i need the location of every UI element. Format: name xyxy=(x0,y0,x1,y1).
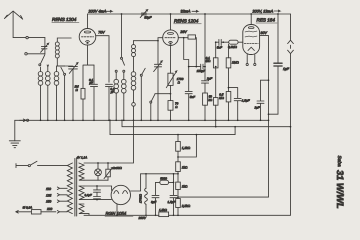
wire xyxy=(195,38,198,67)
svg-text:4V 1,1A: 4V 1,1A xyxy=(77,155,88,159)
svg-text:26V: 26V xyxy=(179,30,187,34)
wire 1uF column xyxy=(269,14,279,114)
transformer core xyxy=(75,159,77,217)
resistor 70 ohm xyxy=(170,85,172,120)
resistor R2 1k xyxy=(176,162,181,172)
capacitor 5nF (coupling) xyxy=(216,39,229,45)
jack contact xyxy=(132,103,136,107)
coil L2a xyxy=(38,72,43,77)
divider chain resistor R1 1,2k xyxy=(177,135,179,142)
field coil 1760 ohm xyxy=(145,174,147,189)
heater pins V3 xyxy=(247,55,255,64)
rectifier tube RGN 1054 xyxy=(111,185,130,204)
svg-text:1MΩ: 1MΩ xyxy=(232,61,239,65)
svg-text:200V, 12mA: 200V, 12mA xyxy=(252,9,274,13)
wire grid V2 xyxy=(134,38,163,41)
svg-text:30pF: 30pF xyxy=(144,16,152,20)
svg-text:1kΩ: 1kΩ xyxy=(182,184,188,188)
rectifier cathode to bottom wire xyxy=(116,204,118,215)
resistor 1M xyxy=(228,44,230,58)
svg-text:2x30Ω: 2x30Ω xyxy=(112,166,123,170)
svg-text:1µF: 1µF xyxy=(283,67,290,71)
svg-text:200V 4mA: 200V 4mA xyxy=(88,10,107,14)
wire switch S5 to cathode column xyxy=(151,94,170,102)
svg-text:1,5µF: 1,5µF xyxy=(168,200,176,204)
terminal A xyxy=(26,36,28,38)
capacitor 1,5uF right xyxy=(229,88,242,121)
resistor screen series xyxy=(188,35,196,39)
svg-text:32mA: 32mA xyxy=(181,10,191,14)
capacitor 5nF (grid leak) xyxy=(185,67,192,121)
coil L3a xyxy=(114,79,119,84)
svg-text:2µF: 2µF xyxy=(254,106,260,110)
svg-text:31 W/WL: 31 W/WL xyxy=(335,170,345,209)
capacitor 2uF xyxy=(202,14,209,93)
line A xyxy=(122,120,291,126)
antenna coil L1 xyxy=(55,42,59,46)
wire xyxy=(57,58,64,66)
svg-text:8µF: 8µF xyxy=(151,200,156,204)
secondary winding rectifier xyxy=(79,186,84,200)
svg-text:1,5µF: 1,5µF xyxy=(242,98,250,102)
coil L4 upper xyxy=(132,45,136,49)
resistor R4 2,5k xyxy=(176,199,181,208)
switch S4 xyxy=(140,76,142,120)
svg-text:RENS 1204: RENS 1204 xyxy=(52,17,77,22)
svg-text:MΩ: MΩ xyxy=(219,96,224,100)
SECTION: middle band xyxy=(15,13,270,127)
capacitor 1,5uF xyxy=(170,174,177,216)
wire 80V column xyxy=(178,36,269,198)
switch S1 xyxy=(39,64,41,66)
wire plate V3 xyxy=(250,14,252,25)
svg-text:1,5kΩ: 1,5kΩ xyxy=(159,208,168,212)
tube V3 RES 164 xyxy=(243,25,260,55)
svg-text:RES 164: RES 164 xyxy=(257,18,276,23)
resistor R3 1k xyxy=(176,182,181,189)
wire rectifier output xyxy=(131,174,141,191)
switch contact L2a xyxy=(40,67,42,72)
svg-text:RENS 1204: RENS 1204 xyxy=(174,18,199,23)
wire xyxy=(28,37,45,39)
resistor 0,1M column xyxy=(215,42,217,127)
capacitor 2uF (output cathode) xyxy=(257,80,269,120)
hum capacitors 0,1uF xyxy=(94,186,101,200)
wire xyxy=(27,53,45,55)
switch S2 xyxy=(64,75,66,120)
wire xyxy=(57,38,71,42)
ground xyxy=(14,120,16,141)
svg-text:5nF: 5nF xyxy=(190,95,195,99)
svg-text:Si 0,8A: Si 0,8A xyxy=(23,205,33,209)
svg-text:0,2MΩ: 0,2MΩ xyxy=(228,45,238,49)
fuse xyxy=(16,211,32,214)
capacitor 8uF xyxy=(152,182,159,215)
wire screen drop to grid-leak node xyxy=(184,38,189,67)
svg-text:70V: 70V xyxy=(98,30,105,34)
capacitor 0,1uF (screen) xyxy=(106,84,113,120)
capacitor 150pF (series) xyxy=(189,64,205,69)
top rail xyxy=(88,13,291,15)
HT wire xyxy=(141,173,178,175)
tube V2 RENS 1204 xyxy=(163,30,179,46)
resistor 1,5k bottom xyxy=(159,212,169,217)
svg-text:110: 110 xyxy=(46,187,51,191)
taps 110 125 150 220 xyxy=(60,188,68,212)
svg-text:125: 125 xyxy=(46,193,52,197)
coil L2b xyxy=(46,72,51,77)
capacitor 0,1uF (cathode) xyxy=(91,65,98,120)
resistor 50k xyxy=(203,93,208,105)
svg-text:2,5kΩ: 2,5kΩ xyxy=(181,204,191,208)
svg-text:Saba: Saba xyxy=(336,156,342,168)
svg-text:260V: 260V xyxy=(138,216,147,220)
wire W2 xyxy=(156,181,174,183)
resistor 0,5M xyxy=(228,68,230,120)
wire plate V1 xyxy=(87,14,89,29)
heater wire bottom xyxy=(84,179,108,181)
rectifier heater wires xyxy=(84,186,112,200)
svg-text:5000: 5000 xyxy=(160,176,167,180)
mains switch xyxy=(16,164,28,168)
trimmer capacitor on rail xyxy=(140,10,147,18)
svg-text:0,1µF: 0,1µF xyxy=(85,193,92,197)
wire from rail to switch S3 xyxy=(121,14,123,57)
line B xyxy=(110,120,235,134)
svg-text:80V: 80V xyxy=(261,31,268,35)
wire screen V2 xyxy=(178,37,188,39)
secondary winding 4V xyxy=(79,163,84,180)
potentiometer 2x30 ohm xyxy=(106,169,111,177)
resistor 0,2M xyxy=(229,40,238,44)
capacitor 1uF xyxy=(274,63,282,66)
junction dots on bus xyxy=(40,119,42,121)
svg-text:5nF: 5nF xyxy=(217,46,222,50)
svg-text:150pF: 150pF xyxy=(197,69,206,73)
coil L4 lower xyxy=(131,72,136,77)
transformer primary xyxy=(67,163,72,214)
antenna xyxy=(4,11,25,37)
svg-text:µF: µF xyxy=(89,81,93,85)
node rail junctions xyxy=(121,13,123,15)
resistor cathode V1 xyxy=(83,45,94,120)
coil L3b xyxy=(122,79,127,84)
coil L2c xyxy=(54,72,59,77)
switch contact L2b xyxy=(47,65,48,72)
SECTION: bottom xyxy=(9,120,345,220)
svg-text:1760Ω: 1760Ω xyxy=(138,193,142,203)
svg-text:1kΩ: 1kΩ xyxy=(182,166,188,170)
ground bus xyxy=(15,119,269,121)
heater wire top xyxy=(84,120,134,163)
terminal B xyxy=(25,53,27,55)
padding capacitor (variable) xyxy=(154,41,163,121)
dial lamp xyxy=(95,169,102,176)
switch S5 xyxy=(150,103,152,120)
secondary winding lower xyxy=(79,204,84,214)
svg-text:MΩ: MΩ xyxy=(206,59,211,63)
SECTION: top rails and tubes xyxy=(4,9,293,215)
wire screen V1 xyxy=(96,36,109,82)
svg-text:220: 220 xyxy=(46,207,53,211)
wire plate V2 xyxy=(170,14,172,30)
tube V1 RENS 1204 xyxy=(79,29,96,46)
trimmer capacitor C1 xyxy=(41,38,49,54)
svg-text:1,2kΩ: 1,2kΩ xyxy=(182,146,191,150)
svg-text:150: 150 xyxy=(46,200,52,204)
speaker connector xyxy=(179,14,294,215)
svg-text:2µF: 2µF xyxy=(206,76,212,80)
tuning capacitor C2 xyxy=(69,63,78,121)
bottom wire xyxy=(84,214,178,216)
variable resistor 700 ohm xyxy=(170,46,172,74)
chain junction to line B xyxy=(178,135,196,162)
bus arrow and contact xyxy=(20,119,26,122)
